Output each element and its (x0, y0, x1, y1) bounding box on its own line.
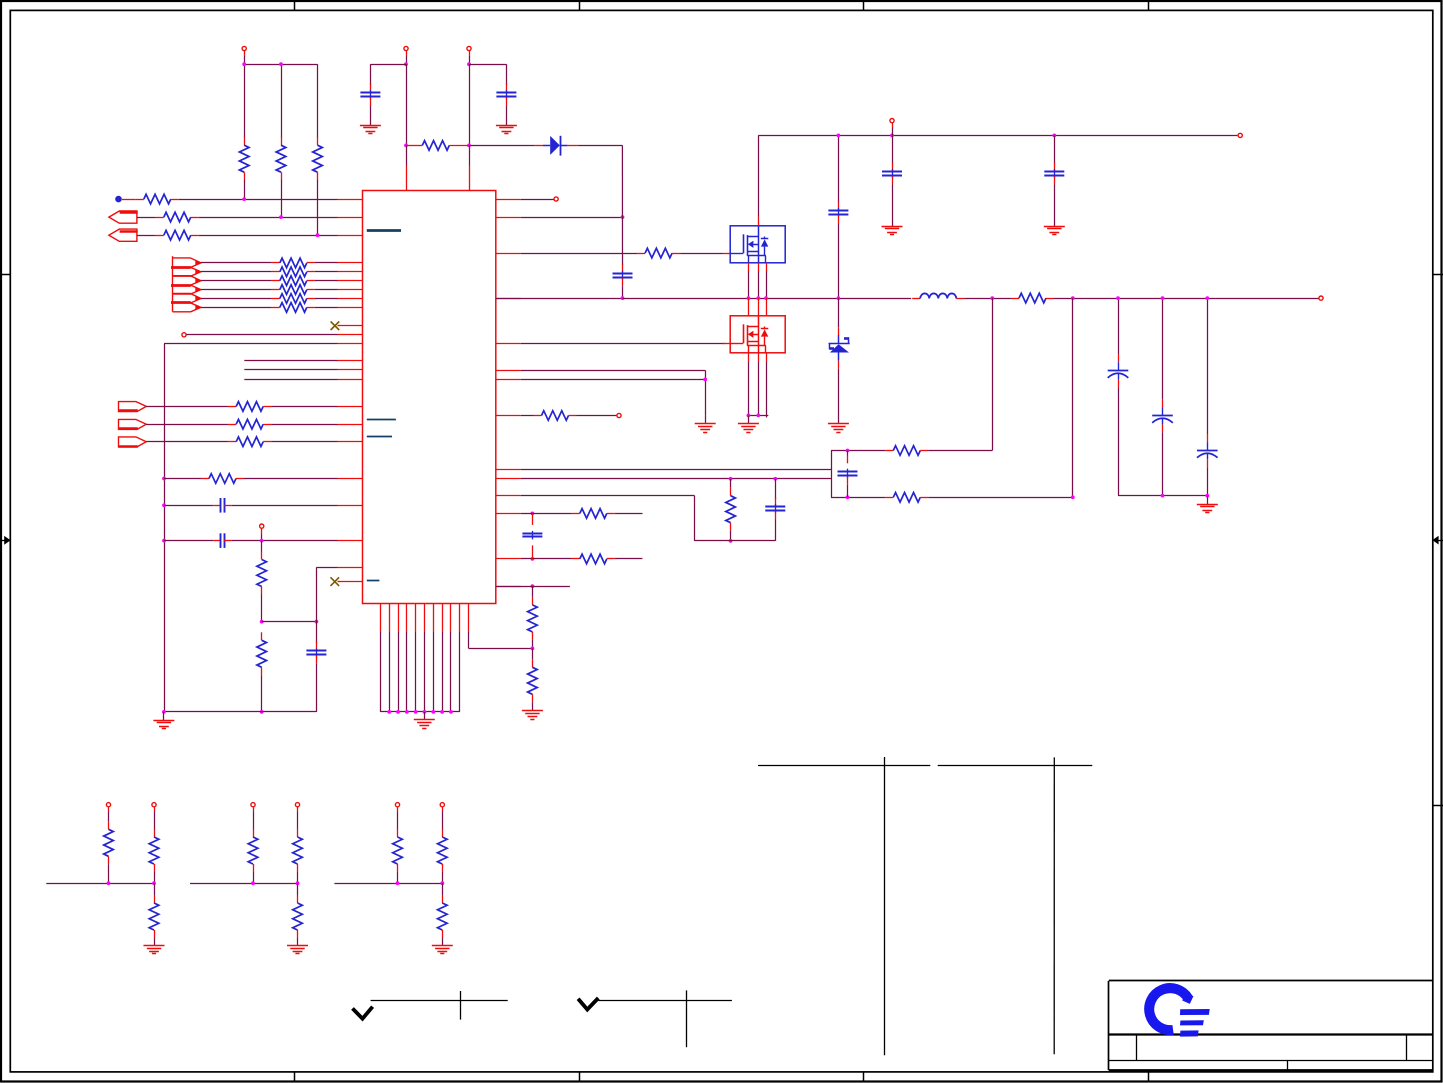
wire bus298 c (964, 298, 1011, 300)
Q1 top pin (758, 217, 760, 226)
wire bus298 b (623, 298, 912, 300)
capacitor C byp4 (882, 162, 902, 184)
wire grpB low up (297, 883, 299, 895)
wire grpB rail (190, 883, 298, 885)
ground GND x892 (882, 227, 903, 235)
border zone tick top 1 (294, 0, 296, 10)
last bottom pin route (468, 632, 470, 649)
ground GND outc (1197, 505, 1218, 513)
wire cap branch right (469, 64, 506, 66)
wire bus2 b (315, 280, 338, 282)
table mark B horizontal (938, 765, 1093, 767)
resistor R pullup C (313, 137, 323, 180)
wire net c2 a (164, 540, 213, 542)
resistor R fb lower (885, 493, 928, 503)
capacitor C out2 (1152, 399, 1173, 432)
junction x705-379 (703, 378, 707, 382)
wire net1 mid (179, 199, 338, 201)
resistor R p5 (228, 437, 271, 447)
junction x532-513 (531, 512, 535, 516)
capacitor C byp3 (828, 201, 848, 223)
terminal circle T3 (467, 46, 471, 50)
IC U1 pin-name bar 4 (367, 580, 380, 582)
resistor R gate1 (637, 248, 680, 258)
resistor R pullup A (239, 137, 249, 180)
wire net c1 a (164, 505, 213, 507)
logo bar 3 (1180, 1030, 1199, 1036)
blue probe dot (115, 196, 122, 203)
check symbol 1 tick (353, 1007, 373, 1019)
resistor R grpC1 (393, 829, 403, 872)
wire left gnd rail (164, 711, 317, 713)
IC U1 body (363, 191, 496, 604)
cap bridge x532 (522, 513, 542, 559)
wire net343 r (521, 343, 725, 345)
outc gnd stub (1207, 496, 1209, 505)
resistor R bus3 (272, 285, 315, 295)
wire net2 left (137, 217, 156, 219)
wire bus4 a (201, 298, 272, 300)
wire comp rail (694, 540, 775, 542)
junction busrail-2 (396, 710, 400, 714)
wire net p4 b (271, 424, 337, 426)
junction net2-281 (279, 215, 283, 219)
junction busrail-5 (423, 710, 427, 714)
junction sw-758 (756, 296, 760, 300)
wire x316 low (316, 664, 318, 712)
wire x1054 drop a (1054, 135, 1056, 163)
wire zener low (838, 369, 840, 424)
wire div586 b (532, 640, 534, 649)
wire T3 down (469, 55, 471, 64)
capacitor C byp2 (496, 84, 516, 106)
resistor R grpB3 (293, 895, 303, 938)
wire outc drop2 a (1162, 298, 1164, 399)
check symbol 2 line (598, 1000, 732, 1002)
ground GND grpB (287, 946, 308, 954)
diode D1 (534, 136, 577, 156)
fb cap branch (838, 456, 858, 485)
wire fb lower rail (831, 497, 885, 499)
junction busrail-7 (440, 710, 444, 714)
capacitor C byp5 (1044, 162, 1064, 184)
wire grpC col1 up (397, 812, 399, 830)
wire stub net c (244, 379, 337, 381)
junction vcc-892 (890, 134, 894, 138)
wire stub net b (244, 369, 337, 371)
wire div586 a (532, 586, 534, 597)
zener D2 (829, 298, 850, 369)
wire vcc bus drop x838 a (838, 135, 840, 202)
IC U1 pin-name bar 2 (367, 419, 396, 421)
wire fb upper rail b (928, 450, 992, 452)
bus port 1 (171, 258, 201, 276)
wire net pin567 (316, 567, 337, 569)
terminal circle grpAa (106, 803, 110, 807)
wire net415 a (521, 415, 534, 417)
junction busrail-4 (414, 710, 418, 714)
wire net3 mid (199, 235, 338, 237)
junction fb-847-497 (846, 495, 850, 499)
junction net1-244 (242, 197, 246, 201)
junction fb-847-450 (846, 449, 850, 453)
wire div648 a (532, 648, 534, 659)
resistor R bus1 (272, 267, 315, 277)
wire outc drop2 b (1162, 432, 1164, 495)
check symbol 1 line (371, 1000, 508, 1002)
wire div mid (261, 595, 263, 622)
wire pin469 up (469, 145, 471, 165)
junction x532-586 (531, 584, 535, 588)
wire comp r down (730, 531, 732, 541)
junction x532-648 (531, 647, 535, 651)
wire grpC rail (334, 883, 442, 885)
terminal circle T-open4 (617, 413, 621, 417)
junction oc3-298 (1205, 296, 1209, 300)
junction x1072-497 (1071, 495, 1075, 499)
wire grpC col2 dn (442, 872, 444, 883)
wire comp c down (775, 520, 777, 541)
junction x469-64 (467, 62, 471, 66)
junction busrail-6 (431, 710, 435, 714)
junction grpC-d1 (396, 881, 400, 885)
wire Q2-S c (766, 361, 768, 417)
left rail ground stub (163, 712, 165, 721)
capacitor C out1 (1108, 354, 1129, 387)
mosfet Q1 high-side (730, 226, 785, 263)
resistor R div3 (528, 597, 538, 640)
Q2 gate pin (723, 343, 731, 345)
capacitor C series 1 (213, 498, 232, 513)
capacitor C x316 (306, 642, 326, 664)
wire outc drop1 b (1118, 387, 1120, 495)
terminal circle T-out (1319, 296, 1323, 300)
terminal circle T4 (890, 119, 894, 123)
wire bus3 b (315, 289, 338, 291)
wire net fb b (244, 478, 338, 480)
IC U1 right pin stubs (496, 200, 521, 587)
wire bus298 d (1054, 298, 1319, 300)
capacitor C out3 (1197, 434, 1218, 467)
table mark B vertical (1053, 757, 1055, 1054)
junction x775-478 (773, 477, 777, 481)
divider chain x261 upper (261, 541, 263, 552)
wire stub net a (244, 360, 337, 362)
wire x622 low (622, 286, 624, 298)
IC U1 left pin stubs (338, 200, 363, 582)
wire Q1 drain up (758, 135, 760, 216)
junction x469-145 (467, 144, 471, 148)
junction q2s-758 (756, 414, 760, 418)
junction busrail-3 (405, 710, 409, 714)
junction x164-478 (162, 477, 166, 481)
check symbol 2 tick (578, 998, 598, 1010)
wire grpB col1 dn (253, 872, 255, 883)
wire net3 left (137, 235, 156, 237)
ground GND left rail (153, 721, 174, 729)
wire fb lower rail b (928, 497, 1073, 499)
terminal circle grpBb (295, 803, 299, 807)
ground GND C byp2 (496, 126, 517, 134)
IC U1 top pin stubs (407, 166, 470, 191)
wire x1054 drop b (1054, 184, 1056, 226)
border zone tick right lower (1433, 805, 1443, 807)
wire vdrop 705 (705, 370, 707, 415)
wire net469 r (521, 469, 831, 471)
border zone tick bottom 4 (1148, 1072, 1150, 1081)
wire bus0 b (315, 262, 338, 264)
junction A-64 (242, 62, 246, 66)
logo bar 1 (1180, 1009, 1210, 1015)
junction grpC-d2 (440, 881, 444, 885)
junction x622-298 (621, 296, 625, 300)
wire bus298 a (496, 298, 623, 300)
resistor R fb upper (885, 446, 928, 456)
wire net558 b (615, 558, 643, 560)
resistor R grpB1 (248, 829, 258, 872)
table mark A horizontal (758, 765, 930, 767)
logo Cirrus C swirl (1149, 987, 1192, 1031)
resistor R bus4 (272, 294, 315, 304)
port P1 (109, 211, 138, 223)
bus port 2 (171, 276, 201, 294)
bottom bus verticals (381, 632, 460, 712)
wire grpB col1 up (253, 812, 255, 830)
junction x406-145 (404, 144, 408, 148)
wire net corner x164 (164, 343, 338, 345)
resistor R grpB2 (293, 829, 303, 872)
wire grpC low up (442, 883, 444, 895)
wire comp r up (730, 479, 732, 488)
wire net495 drop (694, 496, 696, 541)
port P4 (118, 419, 146, 429)
wire fb up vert (992, 298, 994, 450)
resistor R net1 (136, 194, 179, 204)
title block divider row3 (1287, 1060, 1289, 1070)
wire cap drop left (370, 64, 372, 85)
wire outc drop3 a (1207, 298, 1209, 434)
T4 stub (892, 128, 894, 136)
wire vdrop 406 (406, 64, 408, 145)
terminal circle T-open3 (554, 197, 558, 201)
wire Q1-S c (766, 271, 768, 298)
terminal circle T1 (242, 46, 246, 50)
wire net p5 b (271, 441, 337, 443)
wire drop x244 (244, 64, 246, 137)
border mid arrow left (4, 536, 10, 545)
wire bus3 a (201, 289, 272, 291)
ground GND bottom bus (414, 720, 435, 729)
border zone tick bottom 1 (294, 1072, 296, 1081)
wire grpB low dn (297, 938, 299, 946)
terminal circle T-vcc-end (1238, 133, 1242, 137)
port P2 (109, 229, 138, 241)
wire grpA low up (154, 883, 156, 895)
wire net p5 a (146, 441, 228, 443)
border zone tick top 2 (579, 0, 581, 10)
resistor R grpA3 (149, 895, 159, 938)
wire bus1 b (315, 271, 338, 273)
mosfet Q2 low-side (730, 316, 785, 353)
ground GND C byp1 (360, 126, 381, 134)
junction vcc-1054 (1052, 134, 1056, 138)
wire net1 left (122, 199, 136, 201)
junction q2s-748 (747, 414, 751, 418)
wire bottom bus rail (380, 711, 459, 713)
wire div648 b (532, 702, 534, 711)
title block divider row2 right (1406, 1035, 1408, 1061)
junction x532-558 (531, 557, 535, 561)
resistor R grpA1 (104, 821, 114, 864)
resistor R bus0 (272, 258, 315, 268)
IC U1 pin-name bar 1 (367, 229, 401, 232)
wire net open1 (186, 334, 337, 336)
port P5 (118, 437, 146, 447)
wire net558 a (521, 558, 572, 560)
Q2 bottom pins (749, 353, 767, 362)
junction x992-298 (990, 296, 994, 300)
terminal circle grpAb (152, 803, 156, 807)
resistor R div2 (257, 632, 267, 675)
wire route to divider (469, 648, 533, 650)
title block divider row2 left (1136, 1035, 1138, 1061)
wire grpA col2 up (154, 812, 156, 830)
wire drop x281 (281, 64, 283, 137)
border zone tick left (0, 274, 10, 276)
junction x838-298 (837, 296, 841, 300)
wire cap branch left (370, 64, 406, 66)
wire R B to net2 (281, 180, 283, 217)
junction x622-217 (621, 215, 625, 219)
capacitor C x622 (613, 264, 633, 286)
border zone tick bottom 3 (863, 1072, 865, 1081)
wire out vert (1072, 298, 1074, 497)
terminal circle T-open1 (182, 333, 186, 337)
wire stub open2 b (261, 534, 263, 541)
table mark A vertical (884, 757, 886, 1055)
junction x164-540 (162, 539, 166, 543)
wire net513 a (521, 513, 572, 515)
wire NC1 (338, 325, 341, 327)
wire net p4 a (146, 424, 228, 426)
wire grpA col1 dn (108, 864, 110, 883)
check symbol 2 cross (686, 990, 688, 1047)
ground GND Q2 (738, 424, 759, 433)
junction B-64 (279, 62, 283, 66)
wire vcc bus drop x838 b (838, 223, 840, 298)
port P3 (118, 402, 146, 412)
no-connect NC1 (331, 321, 340, 330)
wire bus5 b (315, 307, 338, 309)
resistor R comp (726, 488, 736, 531)
wire outc rail (1118, 495, 1207, 497)
wire net495 r (521, 495, 695, 497)
IC U1 pin-name bar 3 (367, 436, 392, 438)
bus port trunk (172, 256, 174, 312)
bus port 3 (171, 294, 201, 312)
wire x892 drop b (892, 184, 894, 226)
resistor R boot (407, 141, 469, 151)
capacitor C series 2 (213, 533, 232, 548)
resistor R div4 (528, 659, 538, 702)
wire div low (261, 675, 263, 712)
resistor R grpC2 (437, 829, 447, 872)
resistor R net3 (156, 230, 199, 240)
border zone tick top 3 (863, 0, 865, 10)
wire net c2 b (232, 540, 338, 542)
resistor R grpA2 (149, 829, 159, 872)
wire Q1-S a (748, 271, 750, 298)
wire grpB col2 up (297, 812, 299, 830)
wire grpC col2 up (442, 812, 444, 830)
fb bridge vertical (831, 451, 833, 498)
gate pin stub blue fet (723, 253, 731, 255)
wire net370 (521, 370, 705, 372)
wire bus0 a (201, 262, 272, 264)
wire comp c up (775, 479, 777, 499)
junction ocr-1162 (1161, 494, 1165, 498)
IC U1 bottom pin stubs (381, 604, 469, 632)
junction x261-711 (260, 710, 264, 714)
title block outline (1109, 981, 1433, 1071)
wire outc drop3 b (1207, 467, 1209, 495)
wire net217 r (521, 217, 623, 219)
border zone tick right (1433, 274, 1443, 276)
wire link 621 (262, 621, 317, 623)
wire R C to net3 (317, 180, 319, 235)
wire diode net a (469, 145, 534, 147)
terminal circle grpCa (395, 803, 399, 807)
wire net fb a (164, 478, 201, 480)
junction x164-711 (162, 710, 166, 714)
border zone tick top 4 (1148, 0, 1150, 10)
wire R A to net1 (244, 180, 246, 199)
wire net478 r (521, 478, 831, 480)
resistor R pullup B (276, 137, 286, 180)
wire fb upper rail (831, 450, 885, 452)
left rail vertical x164 (164, 344, 166, 712)
resistor R div1 (257, 552, 267, 595)
wire Q2-S b (758, 361, 760, 415)
junction sw-748 (747, 296, 751, 300)
wire net p3 b (271, 406, 337, 408)
ground GND x1054 (1044, 227, 1065, 235)
resistor R bus2 (272, 276, 315, 286)
junction ocr-1207 (1205, 494, 1209, 498)
wire bus2 a (201, 280, 272, 282)
wire Q2 gnd stub (748, 415, 750, 424)
stub open2 (261, 528, 263, 533)
junction x730-540 (729, 539, 733, 543)
capacitor C byp1 (360, 84, 380, 106)
wire x705 gnd stub (705, 415, 707, 424)
wire NC2 (338, 581, 339, 583)
logo bar 2 (1180, 1020, 1204, 1025)
wire grpA rail (46, 883, 154, 885)
ground GND div (522, 711, 543, 720)
ground GND grpC (432, 946, 453, 954)
junction x316-621 (315, 620, 319, 624)
resistor R net2 (156, 212, 199, 222)
capacitor C comp (765, 498, 785, 520)
wire net513 b (615, 513, 643, 515)
wire bus5 a (201, 307, 272, 309)
junction grpB-d2 (296, 881, 300, 885)
junction x164-505 (162, 503, 166, 507)
wire net253 b (680, 253, 722, 255)
junction net3-317 (316, 233, 320, 237)
wire vcc bus (758, 135, 1237, 137)
